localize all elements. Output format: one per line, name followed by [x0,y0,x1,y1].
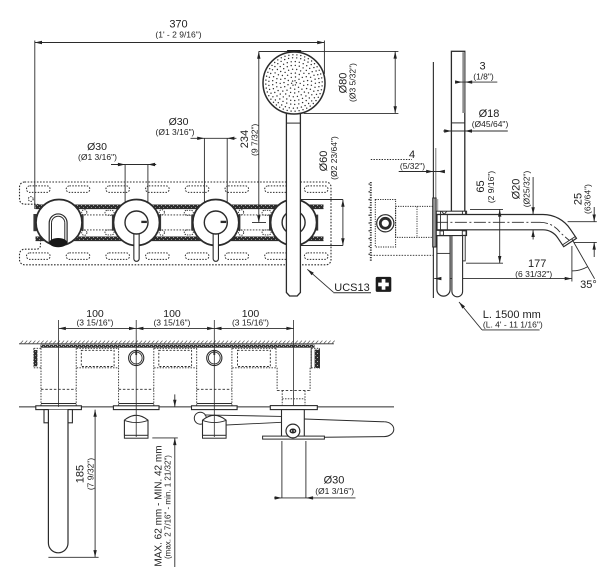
max-min depth dimension: tick at handle end [152,437,178,439]
35 degree outlet angle: slant line [572,239,595,279]
dimension 100 pitch: dimension line [59,327,294,329]
wall flange escutcheon (side view) [433,198,436,247]
valve trim 1 escutcheon (with spout) [36,200,82,246]
dimension 234: dimension line with arrows [258,52,260,223]
svg-text:(63/64"): (63/64") [583,184,593,214]
svg-text:(Ø45/64"): (Ø45/64") [472,119,509,129]
tub spout tube (plan) [48,410,68,553]
handshower handle (front view) [286,110,300,296]
valve 2 lever handle [134,231,139,261]
rail end blocks (hatched) [34,350,38,366]
holder hook knob (plan) [286,424,300,438]
dimension 25: extension ticks [568,221,597,223]
dimension 185: dimension line [94,410,96,558]
dimension 4: dimension line [399,171,445,173]
construction line at head top [259,50,288,52]
max-min depth dimension: upper line [174,394,176,407]
svg-text:(Ø2 23/64"): (Ø2 23/64") [329,136,339,180]
dimension o30 valve2: extension lines [124,165,126,213]
hose lines to holder [205,415,282,417]
hose loop behind valve 3 [194,412,206,424]
spout (side view) [437,215,577,247]
dimension 234: top extension tick [259,50,288,52]
spout hub lines [440,215,442,230]
35 degree angle arc [572,267,588,271]
svg-text:(7 9/32"): (7 9/32") [86,458,96,490]
rail outline (plan, dotted) [34,347,42,349]
svg-text:(6 31/32"): (6 31/32") [515,269,552,279]
dimension 177: dimension line [434,278,572,280]
handshower head (front view) [263,52,325,114]
hanging handshower handle (side view) [437,236,450,297]
handshower hose end (side view) [452,236,463,297]
plate slots top row [27,186,51,193]
handshower lying in holder (plan) [304,419,394,437]
valve 3 lever handle [213,231,218,261]
holder wall plate 3mm (gray strip) [462,52,465,113]
dimension o60: dimension line [342,200,344,246]
dimension 370: left extension line [34,41,36,210]
spout centerline [436,221,540,223]
dimension o60: tangent extension lines [294,199,343,201]
connection body (hidden) [396,206,433,237]
hidden edges and lugs between valve trims [81,214,115,216]
escutcheon plate edge line (plan) [19,406,394,408]
finished wall line (side view) [432,62,434,298]
holder lower bar (plan) [263,436,325,439]
hose length leader arrow [459,302,482,330]
valve cartridge circles [377,215,394,232]
svg-text:Ø30: Ø30 [324,474,345,486]
valve bodies below rail (hidden edges) [40,368,42,406]
rough-in depth hidden line bottom [371,254,434,256]
handshower holder bar (side view) [451,51,464,211]
mounting rail section (dense hatch band) [41,345,315,348]
dimension o30 bottom: extension lines [281,441,283,498]
dimension 185: bottom extension tick [48,556,98,558]
valve 2 temperature mark [141,221,147,223]
svg-text:(3 15/16"): (3 15/16") [153,318,190,328]
svg-text:(3 15/16"): (3 15/16") [76,318,113,328]
dimension 25: dimension line [593,207,595,222]
svg-text:(Ø1 3/16"): (Ø1 3/16") [315,486,354,496]
fixing screws (plan) valves 2,3 [129,350,144,365]
rough-in wall hatch line [370,182,372,262]
plate screw hole (left tab) [28,197,33,202]
in-wall valve body (hidden) [375,200,395,248]
valve trim 3 escutcheon [193,200,239,246]
mounting plate (dashed outline with left notch) [20,182,332,265]
svg-text:(2 9/16"): (2 9/16") [486,171,496,203]
dimension o80: bottom tangent extension [304,112,399,114]
valve trim 4 escutcheon (handshower holder) [271,200,317,246]
dimension 65: extension ticks [470,208,503,210]
tub spout outlet (front view) [49,214,67,243]
svg-text:(Ø1 3/16"): (Ø1 3/16") [156,127,195,137]
svg-text:(9 7/32"): (9 7/32") [250,123,260,155]
spout mouth inner line [563,237,576,245]
svg-text:(L. 4' - 11 1/16"): (L. 4' - 11 1/16") [483,319,543,329]
svg-text:UCS13: UCS13 [334,282,369,294]
holder bracket foot (top strip) [436,211,466,214]
UCS13 plus icon [376,277,392,292]
valve 4 body below rail (hidden edges) [276,368,278,391]
valve stems through rail (dotted) [40,348,42,368]
dimension 100 pitch: centerlines [58,320,60,407]
dimension 370 top: dimension line [35,42,325,44]
max-min depth dimension: lower line [174,438,176,567]
holder bar joint line [451,122,464,124]
svg-text:(Ø25/32"): (Ø25/32") [522,171,532,208]
spray face dots [265,54,323,112]
dimension o30 valve2: dimension line [111,164,156,166]
dimension o30 valve3: extension lines [203,138,205,212]
svg-text:(1' - 2 9/16"): (1' - 2 9/16") [155,30,201,40]
svg-text:(Ø3 5/32"): (Ø3 5/32") [348,63,358,102]
dimension o20: dimension lines and arrows [532,177,534,215]
svg-text:(5/32"): (5/32") [400,161,425,171]
dimension 3: dimension line [455,81,497,83]
holder bracket foot (bottom strip) [436,230,466,235]
dimension o80: dimension line [394,51,396,113]
lower mounting rail (hatched) [36,237,324,241]
dimension 177 arrows [434,277,441,280]
handshower holder (plan) [282,410,305,438]
dimension o30 valve3: dimension line [191,137,237,139]
dimension 370: right extension line [323,41,325,75]
tub spout collar (plan) [44,410,72,423]
svg-text:4: 4 [409,149,415,161]
plate slots bottom row [27,253,51,260]
dimension 234: bottom extension tick [252,222,266,224]
UCS13 leader arrow [307,269,333,292]
finished wall line (plan) with hatch ticks [19,343,334,345]
handle joint line [286,122,300,124]
dimension o30 bottom: dimension line [274,497,356,499]
svg-text:(1/8"): (1/8") [473,71,494,81]
lever handles (plan) valves 2,3 [124,415,148,435]
svg-text:(Ø1 3/16"): (Ø1 3/16") [78,152,117,162]
upper mounting rail (hatched) [36,205,324,209]
valve trim 2 escutcheon [114,200,160,246]
rail connector squares (dashed) [81,350,114,366]
handshower holder tab [287,50,302,53]
dimension 65: dimension line [499,209,501,263]
svg-text:35°: 35° [580,279,597,291]
holder bar lower stub [462,236,466,261]
valve 3 temperature mark [221,221,227,223]
rough-in depth hidden line top [371,159,412,161]
svg-text:(3 15/16"): (3 15/16") [232,318,269,328]
dark clamp blocks at trim edges [81,215,83,231]
valve flanges (plan) [36,406,82,410]
dimension 177: right extension line [571,246,573,282]
svg-text:(max. 2 7/16" - min. 1 21/32"): (max. 2 7/16" - min. 1 21/32") [164,455,173,559]
dimension o18: dimension line [443,130,508,132]
